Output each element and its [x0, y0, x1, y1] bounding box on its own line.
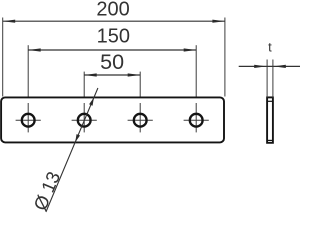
thickness t dimension line: [239, 65, 300, 67]
dimension 50 arrow right: [128, 73, 141, 76]
hole H4: [190, 114, 203, 127]
dimension 200 arrow left: [3, 20, 16, 23]
svg-text:50: 50: [100, 50, 124, 74]
hole H2 crosshair: [72, 103, 97, 132]
side view inner edge bottom: [267, 139, 273, 141]
dimension 50 line: [84, 74, 140, 76]
hole H2: [78, 114, 91, 127]
svg-text:150: 150: [97, 26, 130, 48]
hole H4 crosshair: [184, 103, 209, 132]
leader arrow lower: [75, 134, 80, 142]
thickness t extension lines: [267, 60, 273, 98]
dimension 150 arrow left: [28, 48, 41, 51]
dimension 200 line: [3, 20, 225, 22]
thickness arrow left: [254, 65, 266, 68]
dimension 150 arrow right: [184, 48, 197, 51]
dimension 150 extension lines: [28, 45, 196, 96]
side view inner edge top: [267, 100, 273, 102]
dimension 150 line: [28, 49, 196, 51]
svg-text:Ø 13: Ø 13: [29, 168, 64, 213]
svg-text:t: t: [268, 40, 272, 55]
plate outline (front view): [1, 97, 224, 142]
dimension 200 arrow right: [212, 20, 225, 23]
hole H1 crosshair: [16, 103, 41, 132]
dimension 200 extension lines: [3, 18, 225, 97]
hole H1: [22, 114, 35, 127]
thickness arrow right: [274, 65, 286, 68]
dimension 50 arrow left: [84, 73, 97, 76]
leader line for hole diameter: [46, 88, 98, 212]
dimension 50 extension lines: [84, 72, 140, 97]
svg-text:200: 200: [96, 0, 129, 20]
hole H3 crosshair: [128, 103, 153, 132]
hole H3: [134, 114, 147, 127]
leader arrow upper: [89, 98, 94, 106]
side view plate section: [267, 97, 273, 142]
